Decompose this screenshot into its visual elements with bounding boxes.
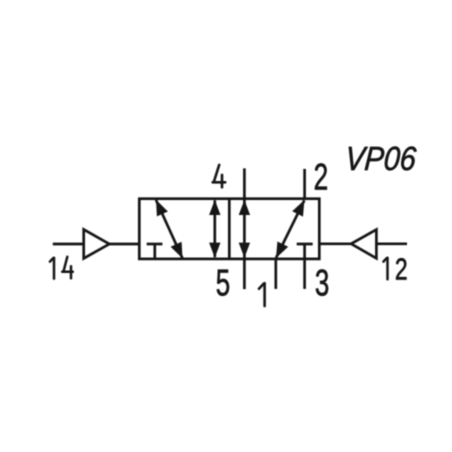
svg-text:2: 2 bbox=[395, 251, 408, 286]
pilot triangle 14 bbox=[84, 230, 110, 259]
svg-text:3: 3 bbox=[315, 262, 329, 304]
arrowhead up-right, right diagonal bbox=[292, 200, 304, 217]
label 4 bbox=[213, 165, 226, 187]
pilot line right outer bbox=[376, 242, 407, 245]
pilot line right inner bbox=[319, 242, 351, 245]
arrowhead up, port4 vertical arrow bbox=[239, 200, 250, 215]
pilot line left inner bbox=[109, 243, 139, 246]
arrowhead down-right, left diagonal bbox=[171, 242, 183, 259]
svg-text:VP06: VP06 bbox=[344, 140, 418, 177]
port 3 line with blocked seat stem bbox=[303, 244, 306, 289]
pilot triangle 12 bbox=[351, 230, 376, 259]
right cell diagonal flow arrow shaft bbox=[276, 200, 304, 257]
blocked port T bar left bbox=[147, 243, 163, 246]
svg-text:2: 2 bbox=[314, 156, 329, 198]
port 2 line bbox=[303, 169, 306, 200]
arrowhead down, port4 vertical arrow bbox=[239, 243, 250, 258]
position divider bbox=[228, 199, 231, 259]
label 14 bbox=[50, 258, 54, 279]
port 4/5 line bbox=[243, 168, 246, 289]
arrowhead up, left vertical arrow bbox=[209, 200, 220, 215]
blocked port T bar right bbox=[297, 243, 313, 246]
port 1 line bbox=[274, 259, 277, 289]
label 1 bbox=[259, 283, 265, 306]
left cell diagonal flow arrow shaft bbox=[156, 200, 182, 258]
left cell vertical flow arrow shaft bbox=[213, 200, 216, 257]
pilot line left outer bbox=[53, 243, 84, 246]
arrowhead down-left, right diagonal bbox=[276, 242, 288, 259]
arrowhead up-left, left diagonal bbox=[156, 200, 168, 217]
arrowhead down, left vertical arrow bbox=[209, 243, 220, 258]
blocked port T stem left bbox=[153, 244, 156, 259]
label 12 bbox=[383, 258, 387, 280]
valve body (two-position box) bbox=[139, 199, 319, 259]
svg-text:5: 5 bbox=[216, 262, 230, 304]
